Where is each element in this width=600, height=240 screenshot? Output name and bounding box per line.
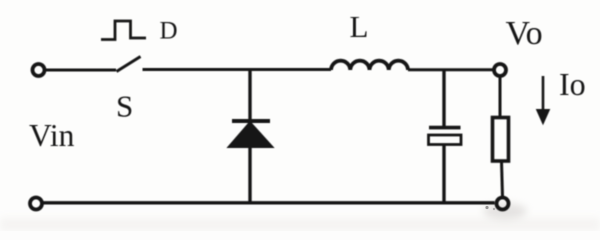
svg-text:Vo: Vo xyxy=(506,15,543,52)
terminal input top-left xyxy=(33,64,45,76)
smudge artifact bottom-right xyxy=(483,203,527,219)
capacitor C bottom plate xyxy=(429,135,462,145)
terminal output top-right xyxy=(494,64,506,76)
svg-text:Vin: Vin xyxy=(29,118,75,153)
terminal bottom-right xyxy=(497,198,509,210)
switch S blade xyxy=(117,57,141,72)
arrow Io xyxy=(542,76,545,112)
wire capacitor branch lower xyxy=(442,145,445,204)
diode D1 cathode bar xyxy=(232,119,270,123)
wire load branch upper xyxy=(499,76,502,118)
pulse waveform symbol xyxy=(101,21,146,40)
wire top rail from inductor to output xyxy=(408,68,493,71)
wire load branch lower xyxy=(502,161,503,197)
speck artifacts left of bottom-right terminal xyxy=(485,206,488,209)
capacitor C top plate xyxy=(429,126,461,130)
wire diode branch lower xyxy=(248,147,251,203)
inductor L coil xyxy=(331,61,408,70)
wire diode branch upper xyxy=(248,70,251,120)
wire bottom rail xyxy=(44,201,495,204)
wire top rail from switch to inductor xyxy=(143,68,332,71)
wire top rail left segment xyxy=(46,69,116,72)
diode D1 triangle xyxy=(228,122,274,148)
resistor load R xyxy=(493,118,509,162)
wire capacitor branch upper xyxy=(442,70,445,126)
svg-text:S: S xyxy=(116,89,133,124)
svg-text:D: D xyxy=(160,18,178,45)
svg-text:L: L xyxy=(350,9,369,44)
svg-text:Io: Io xyxy=(559,66,586,102)
faint bottom edge haze xyxy=(0,218,600,231)
terminal bottom-left xyxy=(30,198,42,210)
